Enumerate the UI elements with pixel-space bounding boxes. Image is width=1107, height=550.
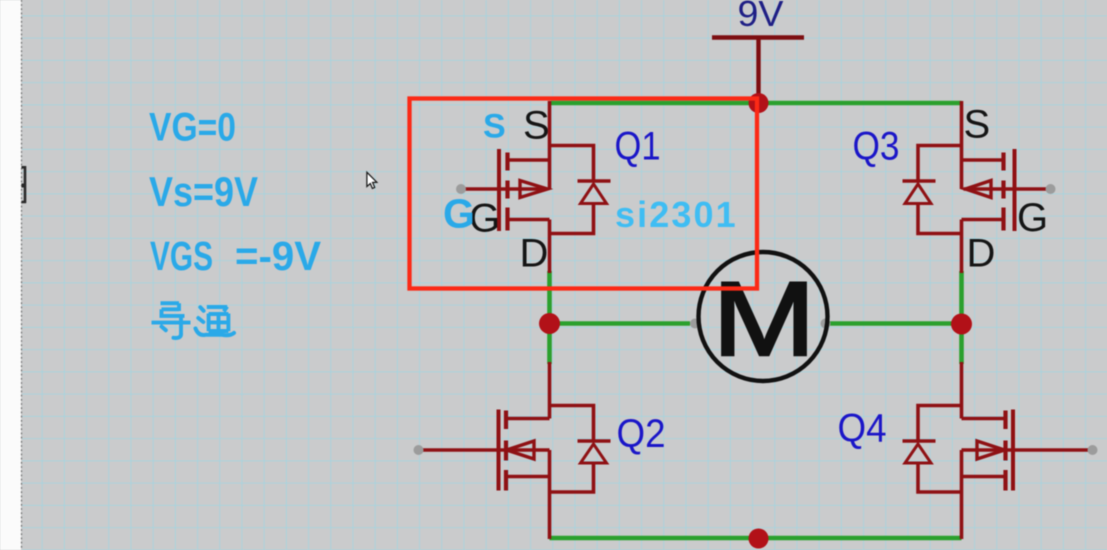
svg-text:Q4: Q4 (838, 407, 887, 451)
svg-text:G: G (443, 191, 475, 237)
svg-text:VGS: VGS (150, 233, 213, 279)
svg-text:=-9V: =-9V (235, 233, 322, 279)
svg-text:Vs=9V: Vs=9V (149, 168, 258, 215)
svg-text:VG=0: VG=0 (149, 106, 236, 150)
svg-text:9V: 9V (738, 0, 784, 34)
svg-text:si2301: si2301 (615, 194, 738, 235)
svg-text:S: S (964, 103, 991, 147)
svg-text:Q1: Q1 (615, 125, 661, 169)
svg-text:Q3: Q3 (853, 125, 900, 169)
svg-text:G: G (1017, 196, 1048, 240)
svg-text:S: S (483, 108, 506, 146)
svg-text:D: D (520, 232, 549, 276)
svg-text:S: S (523, 104, 550, 148)
svg-text:Q2: Q2 (617, 412, 666, 456)
svg-text:M: M (713, 261, 816, 378)
svg-text:D: D (967, 232, 996, 276)
